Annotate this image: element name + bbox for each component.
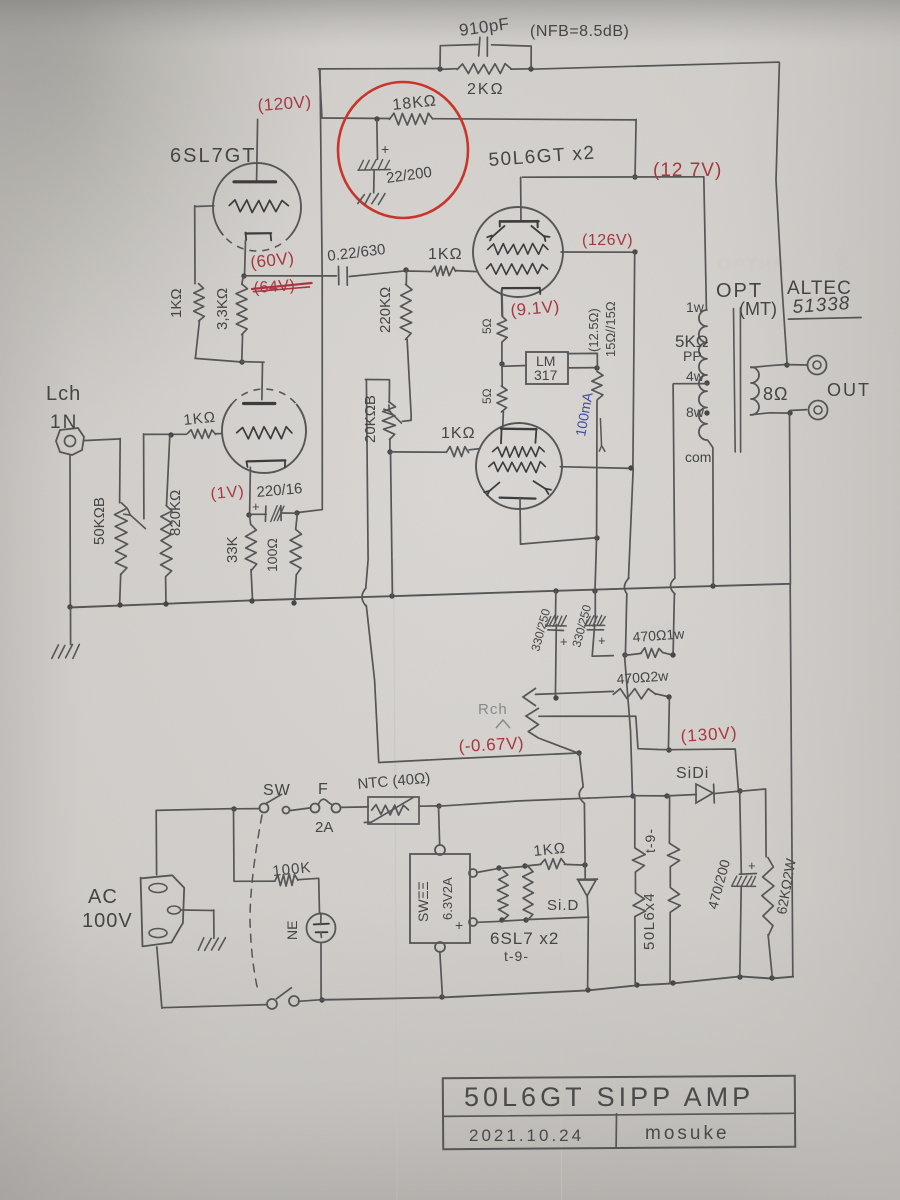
svg-text:(-0.67V): (-0.67V) bbox=[458, 734, 524, 756]
svg-text:OUT: OUT bbox=[827, 380, 871, 400]
svg-text:820KΩ: 820KΩ bbox=[167, 490, 184, 536]
svg-text:(MT): (MT) bbox=[739, 299, 777, 319]
svg-text:50KΩB: 50KΩB bbox=[91, 497, 108, 545]
svg-text:+: + bbox=[381, 141, 389, 157]
svg-text:+: + bbox=[560, 634, 568, 649]
svg-text:AC: AC bbox=[88, 886, 118, 908]
svg-text:1KΩ: 1KΩ bbox=[168, 288, 185, 318]
svg-text:+: + bbox=[748, 858, 756, 873]
svg-text:(12.5Ω): (12.5Ω) bbox=[586, 308, 601, 352]
svg-text:(1V): (1V) bbox=[210, 483, 246, 503]
svg-text:F: F bbox=[318, 781, 328, 798]
svg-text:t-9-: t-9- bbox=[504, 948, 529, 964]
svg-text:220KΩ: 220KΩ bbox=[377, 287, 394, 333]
svg-text:1KΩ: 1KΩ bbox=[428, 246, 463, 263]
svg-text:6SL7 x2: 6SL7 x2 bbox=[490, 929, 559, 948]
svg-text:4w: 4w bbox=[686, 368, 705, 384]
svg-text:2KΩ: 2KΩ bbox=[467, 81, 505, 98]
svg-text:2021.10.24: 2021.10.24 bbox=[469, 1126, 584, 1145]
svg-text:317: 317 bbox=[534, 367, 558, 383]
svg-text:100Ω: 100Ω bbox=[264, 538, 280, 572]
svg-text:20KΩB: 20KΩB bbox=[362, 395, 379, 443]
svg-text:(120V): (120V) bbox=[257, 92, 312, 115]
svg-text:2A: 2A bbox=[315, 819, 333, 836]
svg-text:50L6GT SIPP AMP: 50L6GT SIPP AMP bbox=[464, 1082, 754, 1112]
svg-text:+: + bbox=[598, 633, 606, 648]
svg-text:(NFB=8.5dB): (NFB=8.5dB) bbox=[530, 23, 629, 40]
svg-text:t-9-: t-9- bbox=[642, 828, 658, 853]
svg-text:NE: NE bbox=[284, 921, 300, 940]
svg-text:mosuke: mosuke bbox=[645, 1123, 730, 1144]
svg-text:6.3V2A: 6.3V2A bbox=[440, 877, 455, 920]
svg-text:Si.D: Si.D bbox=[547, 897, 579, 914]
svg-text:1KΩ: 1KΩ bbox=[533, 840, 567, 860]
svg-text:33K: 33K bbox=[224, 536, 241, 563]
svg-text:15Ω//15Ω: 15Ω//15Ω bbox=[603, 301, 618, 357]
svg-text:1KΩ: 1KΩ bbox=[441, 425, 476, 442]
svg-text:com: com bbox=[685, 449, 711, 465]
svg-text:8w: 8w bbox=[686, 404, 705, 420]
svg-text:SWΞΞ: SWΞΞ bbox=[415, 881, 431, 922]
svg-text:Rch: Rch bbox=[478, 701, 508, 718]
svg-text:+: + bbox=[252, 499, 260, 514]
svg-text:+: + bbox=[455, 917, 463, 933]
svg-text:5Ω: 5Ω bbox=[480, 318, 494, 334]
svg-text:5Ω: 5Ω bbox=[480, 388, 494, 404]
svg-text:6SL7GT: 6SL7GT bbox=[170, 145, 256, 167]
svg-text:ОРΤИЛ: ОРΤИЛ bbox=[718, 255, 786, 274]
svg-text:(126V): (126V) bbox=[582, 232, 633, 249]
svg-text:(12 7V): (12 7V) bbox=[653, 160, 722, 181]
svg-text:1w: 1w bbox=[686, 299, 705, 315]
svg-text:(130V): (130V) bbox=[680, 723, 738, 746]
svg-text:SW: SW bbox=[263, 782, 291, 799]
svg-text:100V: 100V bbox=[82, 910, 133, 932]
svg-text:50L6x4: 50L6x4 bbox=[641, 892, 658, 950]
svg-text:Lch: Lch bbox=[46, 383, 81, 405]
svg-text:1KΩ: 1KΩ bbox=[183, 409, 217, 429]
svg-text:3,3KΩ: 3,3KΩ bbox=[214, 288, 231, 330]
svg-text:51338: 51338 bbox=[792, 293, 851, 318]
svg-text:8Ω: 8Ω bbox=[763, 384, 788, 404]
svg-text:PP: PP bbox=[683, 348, 702, 364]
svg-text:SiDi: SiDi bbox=[676, 765, 709, 782]
